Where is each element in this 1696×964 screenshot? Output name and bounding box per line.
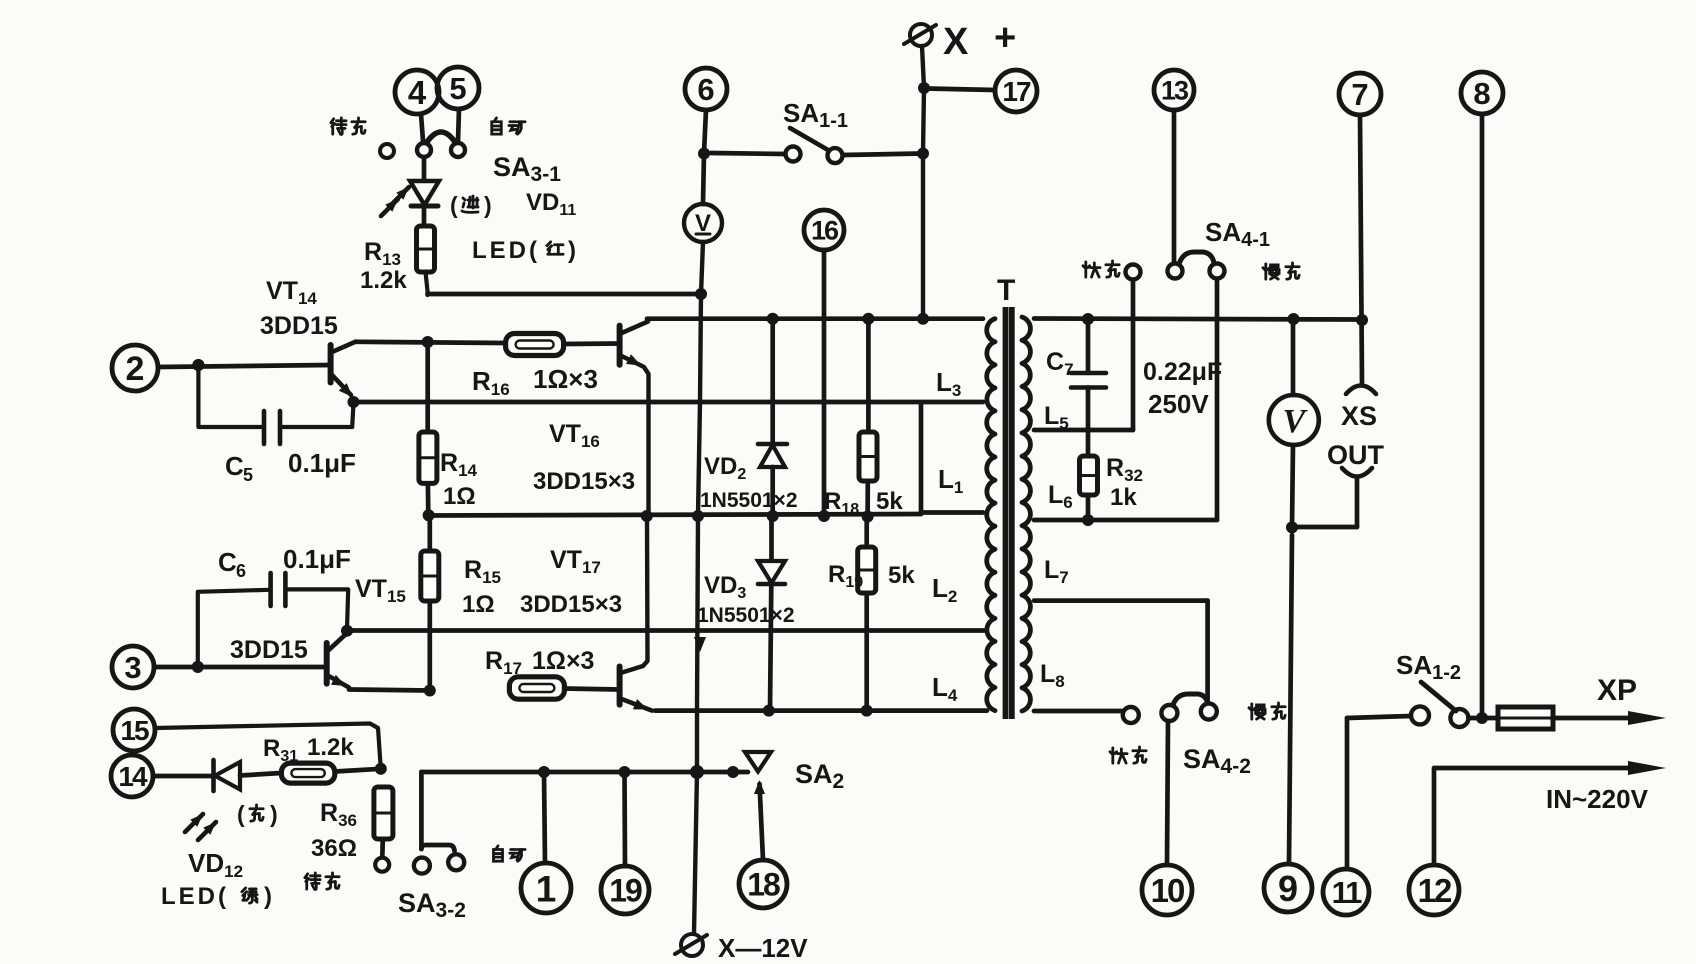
svg-text:6: 6 xyxy=(236,561,246,581)
svg-text:OUT: OUT xyxy=(1327,440,1385,470)
svg-text:12: 12 xyxy=(1418,872,1452,909)
svg-text:1: 1 xyxy=(536,868,557,909)
svg-text:XP: XP xyxy=(1597,674,1637,707)
svg-text:XS: XS xyxy=(1341,401,1377,431)
svg-text:(: ( xyxy=(237,801,245,827)
svg-text:1Ω: 1Ω xyxy=(443,483,476,510)
svg-text:6: 6 xyxy=(697,72,714,107)
svg-text:36Ω: 36Ω xyxy=(311,835,357,862)
svg-text:0.1μF: 0.1μF xyxy=(288,448,356,478)
svg-text:1Ω: 1Ω xyxy=(462,591,495,618)
svg-text:): ) xyxy=(264,883,272,910)
svg-text:18: 18 xyxy=(747,867,780,903)
svg-text:(: ( xyxy=(450,192,458,218)
svg-text:5: 5 xyxy=(243,465,253,485)
svg-text:1N5501×2: 1N5501×2 xyxy=(700,489,798,512)
svg-text:17: 17 xyxy=(1002,76,1031,107)
svg-text:7: 7 xyxy=(1351,77,1368,112)
svg-text:C: C xyxy=(225,451,244,481)
svg-text:3DD15×3: 3DD15×3 xyxy=(533,468,635,495)
svg-text:3DD15×3: 3DD15×3 xyxy=(520,591,622,618)
svg-text:3DD15: 3DD15 xyxy=(230,636,308,664)
svg-text:8: 8 xyxy=(1473,76,1490,111)
svg-text:5: 5 xyxy=(449,71,466,106)
svg-text:LED(: LED( xyxy=(472,237,540,264)
svg-text:5k: 5k xyxy=(876,488,903,515)
svg-text:5k: 5k xyxy=(888,562,915,589)
svg-text:1N5501×2: 1N5501×2 xyxy=(697,604,795,627)
svg-text:1.2k: 1.2k xyxy=(360,267,407,294)
svg-text:): ) xyxy=(484,192,492,218)
svg-text:13: 13 xyxy=(1161,76,1189,106)
svg-text:4: 4 xyxy=(408,74,427,111)
svg-text:1k: 1k xyxy=(1110,484,1137,511)
svg-text:0.22μF: 0.22μF xyxy=(1143,358,1222,386)
svg-text:15: 15 xyxy=(120,715,149,746)
svg-text:14: 14 xyxy=(118,761,148,792)
svg-text:1Ω×3: 1Ω×3 xyxy=(532,647,594,675)
svg-text:3: 3 xyxy=(124,650,141,685)
svg-text:): ) xyxy=(270,801,278,827)
svg-text:0.1μF: 0.1μF xyxy=(283,544,351,574)
svg-text:X—12V: X—12V xyxy=(718,933,808,963)
svg-text:9: 9 xyxy=(1278,868,1298,909)
svg-text:IN~220V: IN~220V xyxy=(1546,784,1649,814)
svg-text:X: X xyxy=(943,21,969,63)
svg-text:V: V xyxy=(1283,403,1308,440)
svg-text:T: T xyxy=(997,274,1015,307)
svg-text:250V: 250V xyxy=(1148,389,1209,419)
svg-text:C: C xyxy=(218,547,237,577)
svg-text:2: 2 xyxy=(126,350,145,388)
svg-text:LED(: LED( xyxy=(161,883,229,910)
svg-text:10: 10 xyxy=(1151,872,1184,909)
svg-text:1.2k: 1.2k xyxy=(307,734,354,761)
svg-text:+: + xyxy=(994,17,1016,59)
svg-text:16: 16 xyxy=(811,216,839,246)
svg-text:3DD15: 3DD15 xyxy=(260,312,338,340)
svg-text:11: 11 xyxy=(1332,875,1363,910)
svg-text:1Ω×3: 1Ω×3 xyxy=(533,364,598,394)
svg-text:19: 19 xyxy=(609,873,642,909)
svg-text:): ) xyxy=(568,237,576,264)
